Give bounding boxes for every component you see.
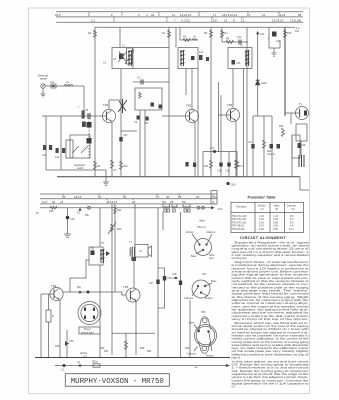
wire T2 secondary down — [120, 69, 122, 177]
TR4 collector wire right — [63, 291, 115, 293]
gang cap blobs — [87, 122, 92, 128]
A10 arrow — [256, 31, 259, 34]
svg-text:R31: R31 — [104, 350, 109, 353]
wire T6 to TR4 — [70, 260, 89, 292]
svg-text:switch: switch — [77, 167, 84, 170]
R27 diagonal pot — [111, 224, 114, 231]
svg-text:28: 28 — [170, 200, 174, 204]
svg-text:17: 17 — [213, 13, 217, 17]
svg-text:44,15,13: 44,15,13 — [106, 200, 118, 204]
capacitor C13 — [119, 137, 122, 142]
svg-text:13: 13 — [224, 19, 228, 23]
svg-text:58: 58 — [298, 13, 302, 17]
vertical x140 — [139, 110, 141, 177]
resistor box left — [46, 310, 51, 322]
detector transistor right — [296, 103, 309, 120]
svg-text:26: 26 — [123, 195, 127, 199]
svg-text:2a: 2a — [151, 13, 155, 17]
svg-text:page 2).: page 2). — [232, 356, 242, 360]
C5 C14 caps below — [137, 116, 140, 120]
svg-text:R22: R22 — [117, 209, 122, 212]
left loop ground — [269, 27, 280, 48]
svg-text:R25: R25 — [49, 210, 54, 213]
wire TR1 top to gang — [109, 99, 121, 101]
svg-text:Base: Base — [191, 255, 197, 258]
svg-text:MURPHY-VOXSON - MR750: MURPHY-VOXSON - MR750 — [71, 378, 164, 386]
svg-text:R28: R28 — [140, 347, 145, 350]
switch contact — [82, 111, 85, 119]
R15 — [284, 30, 287, 38]
svg-text:500: 500 — [162, 201, 167, 204]
resistor R7 emitter — [111, 160, 114, 168]
svg-text:36: 36 — [298, 19, 302, 23]
svg-text:R: R — [52, 315, 54, 318]
wire y131 — [121, 130, 137, 132]
connector circle — [88, 206, 91, 209]
transformer T right — [299, 155, 304, 167]
lower dial scale line 1 — [40, 193, 217, 195]
dark vertical x285 — [284, 27, 286, 116]
dial scale ruler top: line 2 — [56, 16, 303, 18]
table header rule — [231, 211, 304, 213]
feedback link — [112, 332, 155, 334]
svg-text:Collector: Collector — [206, 231, 216, 234]
svg-text:C13: C13 — [123, 134, 128, 137]
svg-text:19·4: 19·4 — [289, 228, 294, 231]
ruler row C values — [55, 13, 302, 17]
supply rail — [40, 207, 211, 209]
W103 diode on bus — [272, 32, 277, 37]
svg-text:26: 26 — [62, 195, 66, 199]
svg-text:TR2: TR2 — [186, 104, 192, 108]
svg-text:spot: spot — [209, 257, 214, 260]
lower wire — [55, 365, 226, 367]
W102 diode vertical — [257, 34, 259, 116]
vertical x253 L22 — [252, 116, 254, 177]
svg-text:TR1: TR1 — [103, 103, 109, 107]
svg-text:15: 15 — [247, 13, 251, 17]
svg-text:R34: R34 — [147, 350, 152, 353]
svg-text:Emitter: Emitter — [186, 231, 194, 234]
svg-text:Emitter: Emitter — [205, 297, 213, 300]
R4 L6 wire — [180, 39, 198, 41]
ground below aerial — [41, 88, 46, 97]
svg-text:L22: L22 — [248, 141, 253, 144]
wire x120 into T2 — [119, 27, 121, 47]
trimmer box with arrows — [70, 135, 90, 158]
TR2 transistor — [185, 104, 198, 123]
svg-text:very in front of the top of th: very in front of the top of the former. — [232, 317, 310, 321]
pin diagram TR5 — [184, 273, 217, 300]
diode blobs in box — [151, 103, 155, 107]
TR4 transistor — [50, 284, 63, 301]
components between buses — [63, 364, 66, 367]
L4 coil — [64, 85, 73, 87]
svg-text:-12V: -12V — [217, 207, 223, 211]
svg-text:C19: C19 — [225, 170, 230, 173]
vertical x188 from T3 — [185, 69, 187, 96]
svg-text:A10: A10 — [260, 33, 265, 36]
L14 blob — [199, 55, 203, 60]
svg-text:C10: C10 — [42, 154, 47, 157]
bottom earth bus — [57, 176, 300, 178]
R8 C11 wire — [222, 41, 248, 43]
svg-text:TR6: TR6 — [201, 311, 206, 314]
ground below C15 — [64, 234, 71, 238]
svg-text:Base: Base — [211, 280, 217, 283]
left leg x41 — [40, 294, 42, 357]
extra IF verticals — [218, 82, 220, 152]
svg-text:trimming tool.: trimming tool. — [232, 256, 248, 260]
resistor R10 — [120, 161, 123, 169]
tuner left verticals — [45, 116, 47, 170]
svg-text:C26: C26 — [301, 144, 306, 147]
svg-text:Value: Value — [199, 220, 206, 223]
svg-text:C30: C30 — [69, 340, 74, 343]
C23 blob below bus — [226, 182, 229, 185]
svg-text:C18: C18 — [217, 170, 222, 173]
svg-text:16: 16 — [60, 200, 64, 204]
bandswitch box — [135, 88, 162, 110]
svg-text:R15: R15 — [287, 32, 292, 35]
svg-text:10: 10 — [262, 13, 266, 17]
scale numbers row 2 — [42, 200, 174, 204]
svg-text:L14: L14 — [199, 51, 204, 54]
IF transformer T3 box — [178, 48, 198, 69]
svg-text:18,13,10,14: 18,13,10,14 — [222, 13, 238, 17]
svg-text:R11: R11 — [224, 32, 229, 35]
A1 junction — [78, 290, 81, 293]
svg-text:Transistor: Transistor — [236, 206, 247, 209]
svg-text:A21: A21 — [295, 30, 300, 33]
svg-text:40: 40 — [166, 195, 170, 199]
plug A diagram — [78, 302, 101, 335]
vertical x145 — [144, 110, 146, 177]
alignment body text — [232, 240, 310, 388]
svg-text:19,8: 19,8 — [211, 19, 217, 23]
svg-text:Base: Base — [189, 322, 195, 325]
svg-text:R23: R23 — [117, 228, 122, 231]
svg-text:(V): (V) — [261, 208, 264, 211]
svg-text:Transistor Table: Transistor Table — [247, 195, 275, 199]
pin diagram TR1,2,4 — [186, 226, 216, 260]
right loop box — [292, 135, 300, 158]
svg-text:24,3: 24,3 — [55, 13, 61, 17]
diode by T6 — [106, 251, 110, 256]
svg-text:50µ: 50µ — [85, 214, 90, 217]
model title box — [65, 374, 169, 387]
TR3 transistor — [226, 103, 239, 122]
svg-text:(V): (V) — [275, 208, 278, 211]
R17 — [236, 152, 238, 177]
svg-text:R24: R24 — [185, 347, 190, 350]
hanging trimpots on rail — [163, 204, 170, 207]
lower dial scale line 2 — [40, 198, 217, 200]
aerial coupling wire — [45, 85, 84, 87]
ruler tick marks — [89, 12, 279, 19]
svg-text:R30: R30 — [55, 345, 60, 348]
svg-text:24: 24 — [196, 195, 200, 199]
svg-text:500: 500 — [182, 201, 187, 204]
svg-text:CIRCUIT ALIGNMENT: CIRCUIT ALIGNMENT — [240, 235, 286, 240]
C2 wire — [133, 81, 169, 83]
TR5 emitter down — [135, 300, 137, 355]
speaker LS1 — [135, 245, 148, 258]
svg-text:aerial: aerial — [40, 77, 47, 81]
svg-text:23,14: 23,14 — [74, 195, 82, 199]
svg-text:C15: C15 — [70, 218, 75, 221]
svg-text:25: 25 — [178, 195, 182, 199]
svg-text:R16: R16 — [204, 165, 209, 168]
svg-text:C31: C31 — [90, 248, 95, 251]
supply arrow — [211, 206, 215, 209]
scale numbers row 1 — [62, 195, 200, 199]
vertical x169 with R1 — [168, 27, 170, 177]
C15 electrolytic — [67, 208, 69, 234]
pin diagram TR6 power — [187, 311, 217, 358]
top supply bus — [95, 26, 295, 28]
svg-text:R17: R17 — [239, 165, 244, 168]
svg-text:C17: C17 — [210, 147, 215, 150]
svg-text:signal generator via the 0·1µF: signal generator via the 0·1µF capacitor… — [232, 382, 310, 386]
svg-text:TR4: TR4 — [51, 284, 57, 288]
svg-text:volume: volume — [267, 153, 275, 156]
svg-text:different positions (see illus: different positions (see illustration at… — [232, 352, 309, 356]
vertical x222 R11 — [221, 27, 223, 42]
vertical wire x95 — [94, 27, 96, 177]
gang capacitor section 1 arrows — [118, 99, 127, 113]
R16 lower — [210, 160, 213, 168]
svg-text:L10: L10 — [50, 81, 55, 84]
T6 secondary down — [99, 265, 101, 358]
ground mid — [103, 177, 109, 186]
svg-text:TR5: TR5 — [123, 285, 129, 289]
IF transformer T4 box — [228, 48, 252, 69]
C8 capacitor — [88, 113, 90, 119]
C4 capacitor blob — [119, 54, 124, 60]
svg-text:13,78,19: 13,78,19 — [272, 19, 284, 23]
trimmer cluster L3 — [127, 48, 133, 64]
svg-text:13: 13 — [241, 19, 245, 23]
vertical x180.5 C29 — [180, 212, 182, 357]
vertical x272 — [271, 116, 273, 177]
tuner component row blobs — [43, 145, 46, 150]
svg-text:Emitter: Emitter — [206, 355, 214, 358]
svg-text:TR1,2,4: TR1,2,4 — [197, 226, 206, 229]
svg-text:4, 23,5: 4, 23,5 — [181, 19, 190, 23]
L10 — [51, 84, 56, 88]
TR5 collector up to T7 — [133, 257, 135, 288]
scale end box C/R — [211, 191, 217, 204]
loop x158-x164 — [158, 268, 165, 308]
svg-text:50µ: 50µ — [77, 286, 82, 289]
svg-text:R29: R29 — [100, 347, 105, 350]
TR1 transistor — [102, 103, 115, 123]
lower dial scale line 3 — [40, 203, 217, 205]
chassis bus — [35, 357, 230, 359]
table body rows — [232, 215, 294, 231]
svg-text:2,1: 2,1 — [91, 19, 95, 23]
volume control R24 — [282, 128, 285, 136]
svg-text:500w: 500w — [92, 361, 98, 364]
svg-text:5,17: 5,17 — [42, 200, 48, 204]
svg-text:TR3: TR3 — [227, 103, 233, 107]
TR1 base wire — [42, 115, 107, 117]
verticals x176 x180 — [175, 27, 177, 47]
switch section box — [66, 140, 73, 158]
svg-text:0·55: 0·55 — [273, 228, 278, 231]
svg-text:C12: C12 — [55, 156, 60, 159]
ticks — [63, 194, 179, 200]
R26 resistor — [114, 204, 116, 292]
vertical x100 down to T6 — [99, 208, 101, 247]
svg-text:C: C — [213, 194, 215, 197]
svg-text:14,10,15: 14,10,15 — [180, 13, 192, 17]
C17 junction wire — [203, 151, 237, 153]
vertical x160 — [162, 212, 164, 230]
svg-text:23,21: 23,21 — [278, 13, 286, 17]
svg-text:26: 26 — [132, 200, 136, 204]
svg-text:TR4: TR4 — [202, 273, 207, 276]
svg-text:C11: C11 — [237, 36, 242, 39]
table column lines — [254, 202, 256, 232]
svg-text:C110: C110 — [230, 184, 236, 187]
IF transformer T2 box — [112, 48, 133, 69]
svg-text:G3.: G3. — [232, 385, 236, 389]
resistor in box — [139, 92, 141, 98]
svg-text:w102: w102 — [261, 82, 267, 85]
svg-text:TR5 DC141: TR5 DC141 — [232, 228, 245, 231]
svg-text:20: 20 — [52, 200, 56, 204]
svg-text:C15: C15 — [236, 62, 241, 65]
resistor R2 — [94, 30, 97, 38]
svg-text:R: R — [213, 201, 215, 204]
C2 capacitor — [141, 80, 143, 85]
vertical x247 — [246, 27, 248, 177]
dark cap — [82, 122, 86, 128]
TR5 base wire — [115, 292, 126, 295]
TR1 collector/emitter wires — [108, 100, 110, 109]
bus drop right — [300, 177, 309, 190]
svg-text:C27: C27 — [149, 282, 154, 285]
vertical x211 R6 — [210, 27, 212, 177]
svg-text:20: 20 — [98, 195, 102, 199]
svg-text:11: 11 — [172, 13, 175, 17]
svg-text:[wiring side]: [wiring side] — [81, 331, 94, 334]
table header text — [236, 205, 296, 211]
vertical x264 — [263, 116, 265, 177]
vertical x112 — [111, 204, 113, 355]
vertical x60 from TR4 — [59, 300, 61, 357]
svg-text:0·50: 0·50 — [259, 228, 264, 231]
A2 tag — [78, 208, 81, 211]
T2 winding — [128, 50, 133, 66]
svg-text:Collector: Collector — [184, 297, 194, 300]
diode in T4 — [232, 60, 236, 65]
TR4 base wire left — [41, 293, 54, 295]
vertical x135 — [134, 204, 136, 245]
right side box — [296, 124, 307, 141]
dial scale ruler top: line 1 — [56, 11, 303, 13]
svg-text:C18: C18 — [172, 273, 177, 276]
wire y116 — [253, 115, 272, 117]
svg-text:R10: R10 — [123, 165, 128, 168]
TR5 transistor — [123, 285, 140, 302]
svg-text:Collector: Collector — [187, 353, 197, 356]
vertical x196 — [197, 69, 199, 177]
dial scale ruler top: line 3 — [56, 21, 303, 23]
wire down from L4 — [83, 86, 85, 116]
svg-text:R23: R23 — [279, 125, 284, 128]
svg-text:(V): (V) — [292, 208, 295, 211]
table box — [231, 202, 304, 232]
caps x221 x229 — [220, 95, 222, 177]
ruler row R values — [91, 19, 302, 23]
external aerial symbol — [38, 74, 48, 89]
svg-text:27: 27 — [156, 195, 160, 199]
resistor R25 — [50, 206, 57, 209]
A18 tag left — [174, 276, 177, 279]
page border frame — [29, 8, 310, 394]
gang section dashed link — [88, 115, 90, 160]
fuse circles — [197, 206, 200, 209]
vertical x190 — [189, 300, 191, 357]
resistor R9 — [94, 161, 97, 169]
vertical x158 C27 — [157, 208, 159, 357]
